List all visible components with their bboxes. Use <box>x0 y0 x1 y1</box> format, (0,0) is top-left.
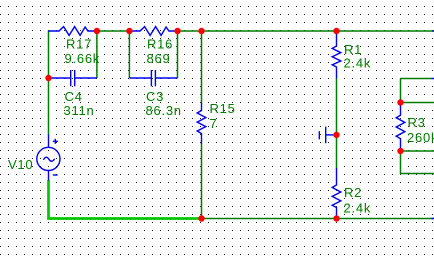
junction node at R16 right <box>174 28 180 34</box>
junction node at R16 left <box>126 28 132 34</box>
svg-text:311n: 311n <box>64 103 95 118</box>
wire: left vertical from top rail down to V10 top <box>48 30 50 135</box>
svg-text:2.4k: 2.4k <box>344 201 372 216</box>
svg-text:86.3n: 86.3n <box>146 103 182 118</box>
svg-text:R17: R17 <box>66 37 92 52</box>
wire: R1 bottom to R2 top vertical <box>336 78 338 169</box>
svg-text:R16: R16 <box>147 37 173 52</box>
capacitor C4 <box>50 70 97 86</box>
junction node at R15 top <box>198 28 204 34</box>
component stub at right edge y=78.5 <box>432 78 434 80</box>
junction node at R1 top <box>333 28 339 34</box>
wire: right net vertical upper <box>400 79 402 104</box>
svg-text:C3: C3 <box>146 89 164 104</box>
wire: R15 top vertical <box>201 31 203 103</box>
wire: node horizontal at R3 top <box>401 102 434 104</box>
junction node at capacitor stub <box>333 132 339 138</box>
component stub at right edge y=218.5 <box>432 218 434 220</box>
resistor R17 <box>49 27 97 36</box>
voltage source V10 <box>37 135 60 181</box>
wire: bottom rail right portion <box>202 218 434 220</box>
wire: right net vertical lower <box>400 150 402 174</box>
svg-text:869: 869 <box>147 51 171 66</box>
svg-text:260k: 260k <box>407 130 434 145</box>
wire: top rail segment between R17 and R16 <box>97 30 129 32</box>
resistor R1 <box>332 33 341 79</box>
svg-text:V10: V10 <box>8 157 33 172</box>
svg-text:2.4k: 2.4k <box>344 56 372 71</box>
junction node at C4 left <box>45 75 51 81</box>
resistor R16 <box>129 27 177 36</box>
wire: right net top horizontal y=78.5 <box>401 78 432 80</box>
capacitor C3 <box>129 70 177 86</box>
wire: C3 left side vertical <box>128 31 130 78</box>
wire: C3 right side vertical <box>177 31 179 78</box>
wire: top rail from R16 right node to right edge <box>178 30 434 32</box>
junction node at R3 top <box>397 99 403 105</box>
wire: C4 right side vertical <box>96 31 98 78</box>
svg-text:9.66k: 9.66k <box>65 51 101 66</box>
junction node at R3 bottom <box>397 148 403 154</box>
junction node at R17 right <box>94 28 100 34</box>
resistor R15 <box>197 103 206 144</box>
component stub at right edge y=30.5 <box>433 30 434 32</box>
junction node at bottom rail / R15 bottom <box>198 215 204 221</box>
svg-text:R2: R2 <box>344 185 362 200</box>
wire: ground return bright vertical below V10 <box>47 180 50 219</box>
wire: ground return bright bottom rail <box>47 217 201 220</box>
wire: node horizontal at R3 bottom <box>401 150 434 152</box>
svg-text:7: 7 <box>210 116 218 131</box>
wire: R15 bottom vertical <box>201 144 203 219</box>
junction node at R2 bottom <box>333 215 339 221</box>
svg-text:R15: R15 <box>210 101 236 116</box>
svg-text:C4: C4 <box>65 89 83 104</box>
resistor R3 <box>396 104 405 151</box>
capacitor stub (battery-style plates) at node on R1-R2 wire <box>319 127 336 144</box>
resistor R2 <box>332 168 341 218</box>
wire: right net bottom horizontal y=173.5 <box>401 173 434 175</box>
svg-text:R3: R3 <box>408 115 426 130</box>
